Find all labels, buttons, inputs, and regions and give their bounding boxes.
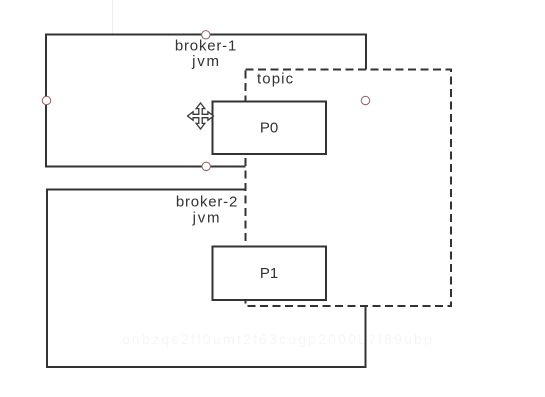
rectangle partition P1: [213, 247, 327, 301]
rectangle broker-1: [46, 35, 366, 167]
svg-text:P1: P1: [260, 265, 278, 282]
dashed rectangle topic: [246, 70, 452, 307]
svg-text:onbzqe2ff0umt2f63cogp2000L7f89: onbzqe2ff0umt2f63cogp2000L7f89ubp: [122, 331, 434, 347]
svg-text:jvm: jvm: [192, 210, 222, 227]
rectangle partition P0: [213, 102, 327, 155]
connection point bottom (broker-1): [202, 162, 210, 170]
connection point top (broker-1): [202, 31, 210, 39]
faint grid line: [112, 0, 114, 34]
svg-text:P0: P0: [260, 120, 278, 137]
connection point right (broker-1): [361, 96, 369, 104]
rectangle broker-2: [47, 190, 366, 368]
svg-text:topic: topic: [257, 71, 294, 88]
svg-text:broker-1: broker-1: [175, 38, 237, 55]
connection point left (broker-1): [42, 96, 50, 104]
move cursor icon: [188, 103, 214, 129]
svg-text:jvm: jvm: [191, 53, 221, 70]
svg-text:broker-2: broker-2: [176, 194, 238, 211]
